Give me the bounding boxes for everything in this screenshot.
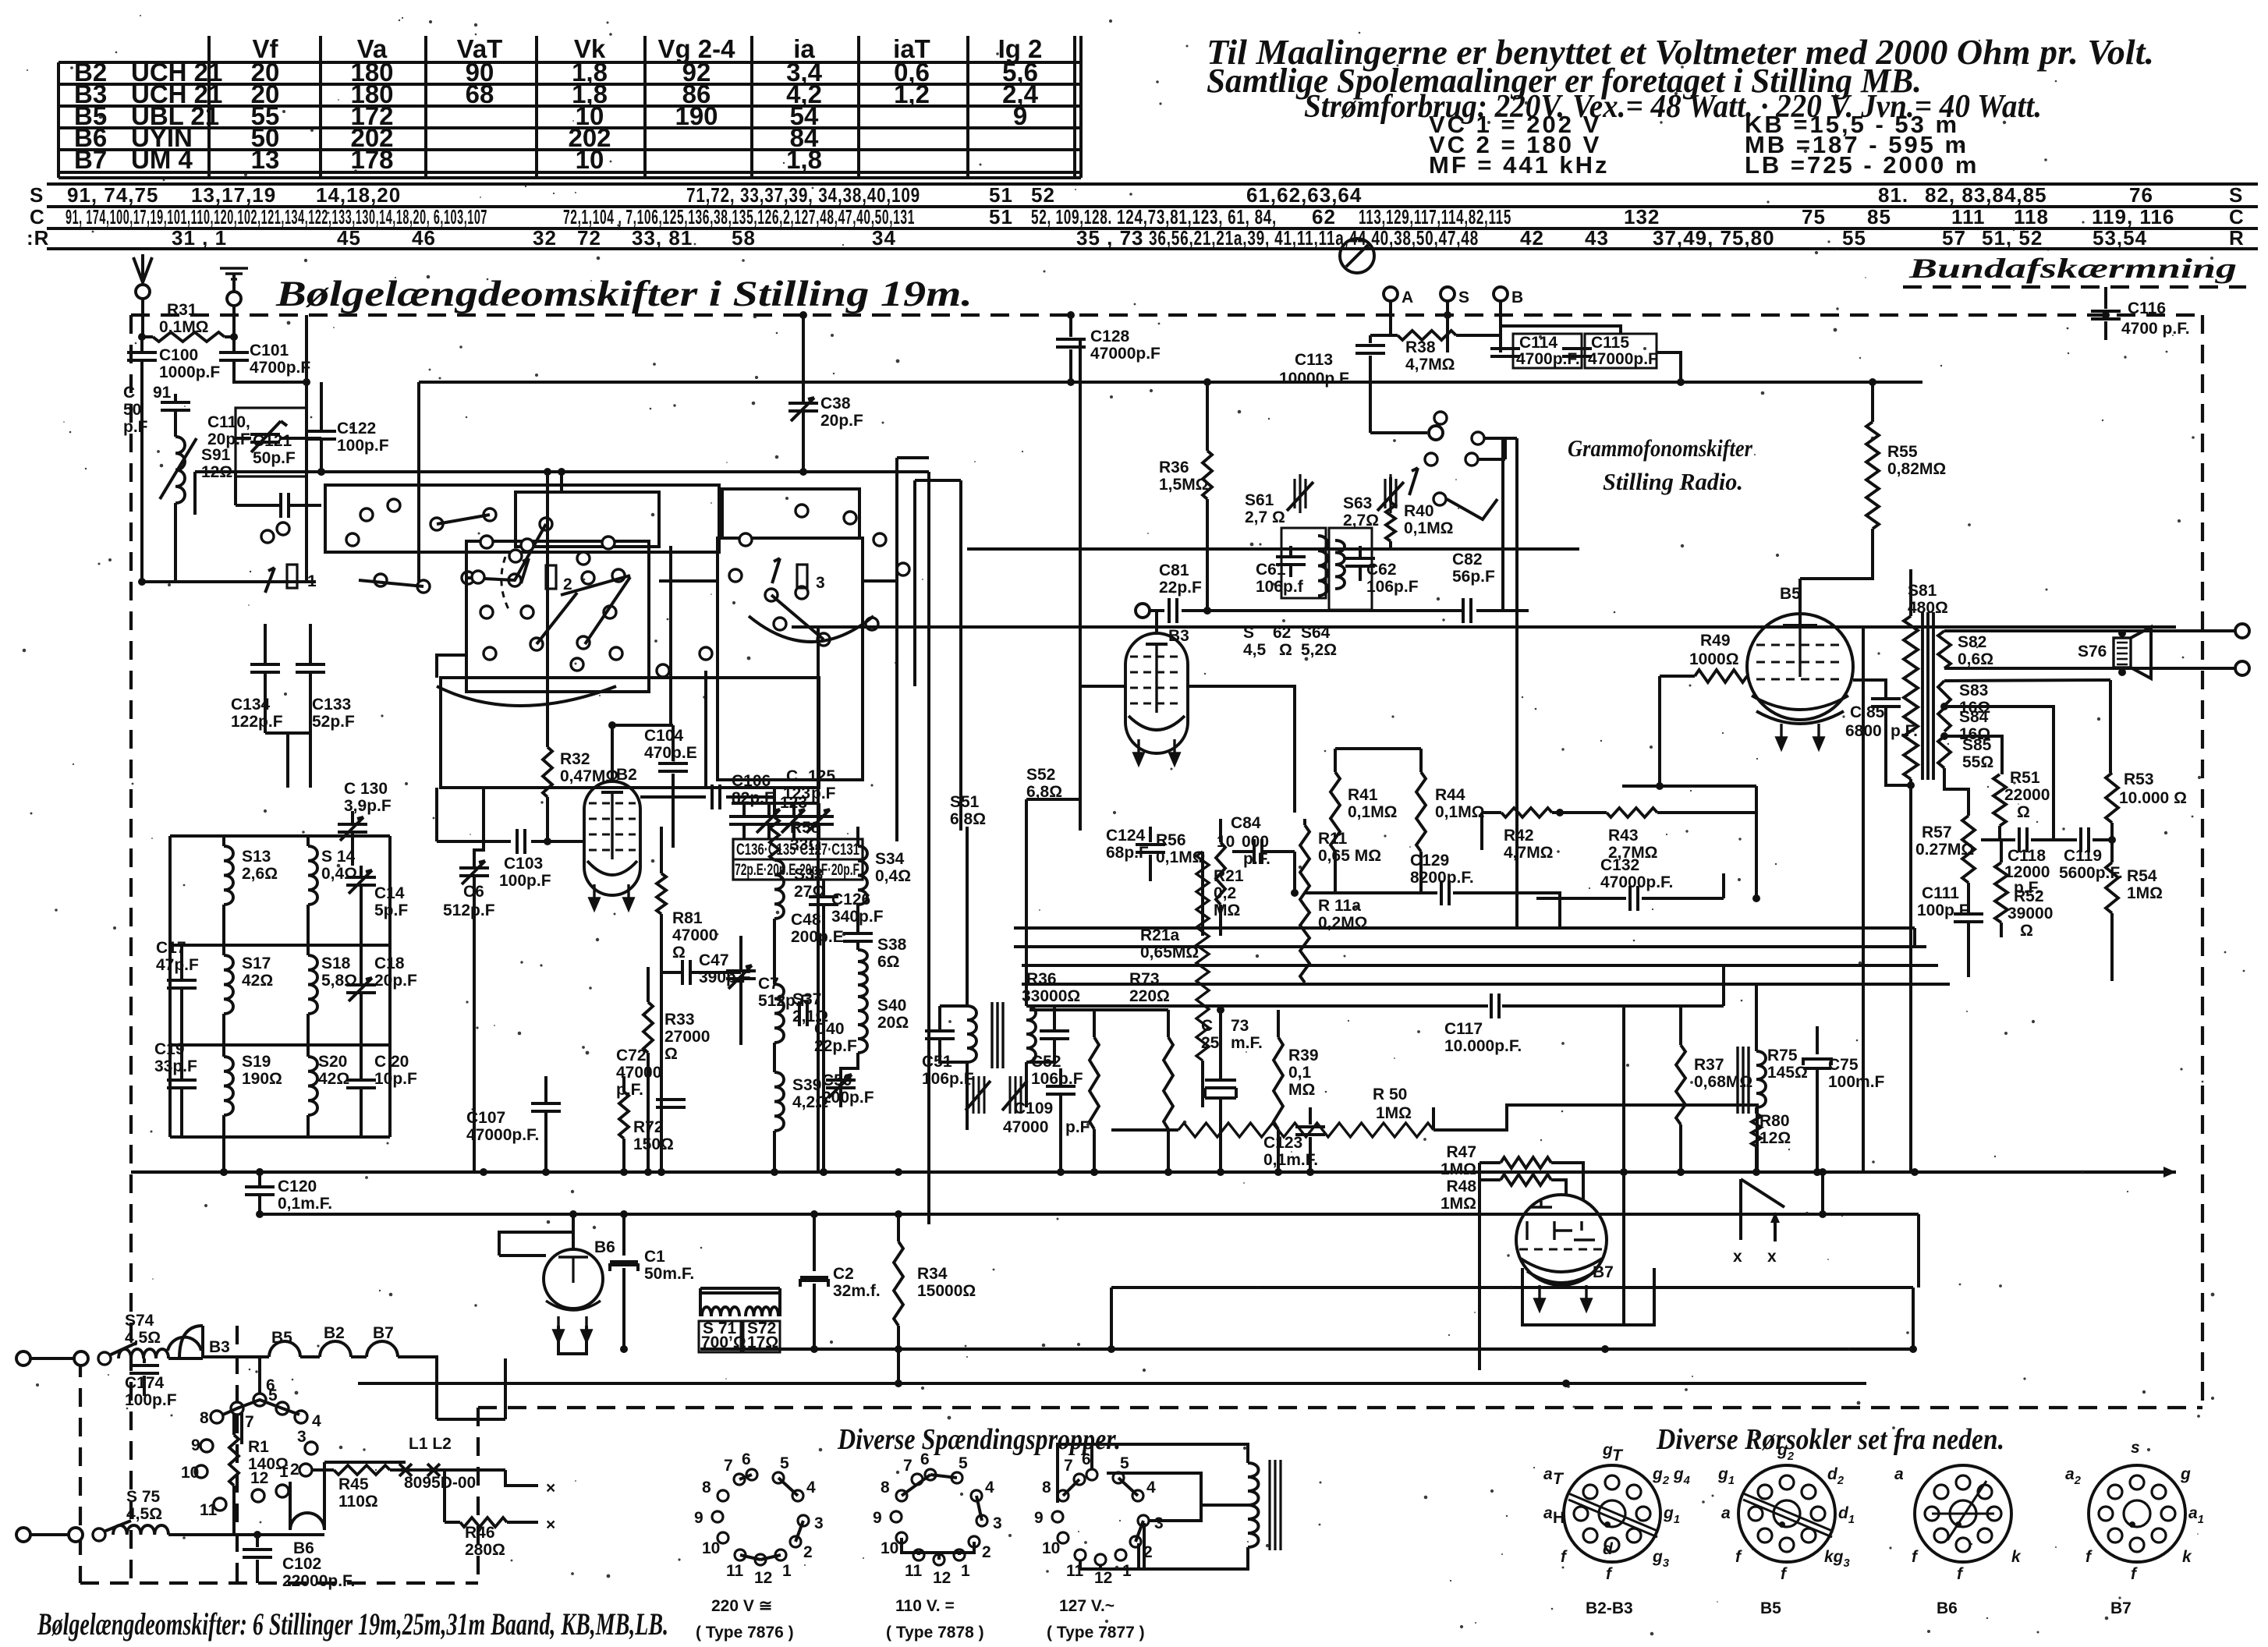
svg-text:R49: R49 <box>1700 632 1731 650</box>
svg-text:S18: S18 <box>321 955 351 972</box>
svg-text:R46: R46 <box>465 1524 495 1542</box>
svg-text:27Ω: 27Ω <box>794 883 825 901</box>
capacitor C122 <box>307 431 336 439</box>
svg-text:S74: S74 <box>125 1312 154 1330</box>
svg-text:8: 8 <box>881 1479 890 1496</box>
svg-text:190Ω: 190Ω <box>242 1070 282 1088</box>
svg-text:72,1,104 , 7,106,125,136,38,13: 72,1,104 , 7,106,125,136,38,135,126,2,12… <box>563 205 915 228</box>
IF trimmers <box>973 1076 984 1114</box>
svg-text:100m.F: 100m.F <box>1828 1073 1885 1091</box>
svg-text:200p.F: 200p.F <box>822 1089 874 1107</box>
svg-text:8: 8 <box>702 1479 711 1496</box>
capacitor C106 <box>640 795 706 799</box>
svg-text:R34: R34 <box>917 1265 948 1283</box>
capacitor C129 <box>1305 891 1437 894</box>
svg-text:R58: R58 <box>790 819 820 837</box>
svg-text:20Ω: 20Ω <box>877 1014 909 1032</box>
svg-text:1000p.F: 1000p.F <box>159 363 220 381</box>
svg-text:S38: S38 <box>877 936 907 954</box>
svg-text:91, 74,75: 91, 74,75 <box>67 183 158 207</box>
svg-text:55: 55 <box>1842 226 1866 250</box>
variable capacitor C7 <box>726 971 756 979</box>
capacitor C104 <box>612 724 673 727</box>
svg-text:0,6Ω: 0,6Ω <box>1958 650 1993 668</box>
svg-text:p.F.: p.F. <box>1243 850 1270 868</box>
wire row rails <box>170 834 390 838</box>
svg-text:S76: S76 <box>2078 643 2107 661</box>
svg-text:100p.F: 100p.F <box>125 1391 177 1409</box>
svg-text:51: 51 <box>989 183 1013 207</box>
svg-text:8: 8 <box>200 1409 209 1427</box>
voltage plug 127V <box>1086 1469 1097 1480</box>
svg-text:1MΩ: 1MΩ <box>1441 1195 1476 1213</box>
svg-text:5: 5 <box>268 1387 278 1404</box>
wire top distribution bus <box>419 381 1922 384</box>
chassis dashed border right <box>2201 315 2204 1408</box>
svg-text:100p.F: 100p.F <box>337 437 389 455</box>
wire switch2 to switch3 <box>659 579 718 583</box>
chassis dashed border left <box>129 315 133 1583</box>
tuning eye <box>1340 239 1374 273</box>
tube socket B6 <box>1915 1465 2011 1562</box>
svg-text:47000: 47000 <box>672 926 718 944</box>
svg-text:C 130: C 130 <box>344 780 388 798</box>
svg-text:C50: C50 <box>822 1071 852 1089</box>
IF core <box>992 1002 1003 1068</box>
capacitor C101 <box>232 342 236 352</box>
svg-text:C103: C103 <box>504 855 543 873</box>
svg-text:32m.f.: 32m.f. <box>833 1282 881 1300</box>
svg-text:22p.F: 22p.F <box>1159 579 1202 597</box>
svg-text:9: 9 <box>1034 1509 1044 1527</box>
trimmer S61 top <box>1295 474 1306 513</box>
svg-text:R43: R43 <box>1608 827 1639 845</box>
svg-text:Ω: Ω <box>2020 922 2033 940</box>
svg-text:35 , 73: 35 , 73 <box>1076 226 1144 250</box>
coil S14 <box>308 846 317 905</box>
svg-text:S19: S19 <box>242 1053 271 1071</box>
svg-text:S82: S82 <box>1958 633 1986 651</box>
svg-text:3: 3 <box>1154 1514 1164 1532</box>
svg-text:1: 1 <box>961 1562 970 1580</box>
coil S17 <box>224 955 233 1014</box>
capacitor C134 <box>264 624 267 664</box>
svg-text:B2: B2 <box>616 766 637 784</box>
svg-text:4: 4 <box>806 1479 816 1496</box>
svg-text:15000Ω: 15000Ω <box>917 1282 976 1300</box>
svg-text:C51: C51 <box>922 1053 952 1071</box>
svg-text:R 11a: R 11a <box>1318 897 1361 915</box>
svg-text:C122: C122 <box>337 420 376 437</box>
capacitor C107 <box>531 1103 561 1111</box>
capacitor C100 <box>140 337 144 352</box>
tube B6 <box>544 1249 603 1309</box>
svg-text:51: 51 <box>989 205 1013 228</box>
svg-text:C132: C132 <box>1600 856 1639 874</box>
svg-text:S34: S34 <box>875 850 905 868</box>
capacitor C116 <box>2104 287 2107 309</box>
svg-text:2: 2 <box>982 1543 991 1561</box>
svg-text:10: 10 <box>1217 833 1235 851</box>
svg-text:13: 13 <box>251 145 280 174</box>
svg-text:85: 85 <box>1867 205 1891 228</box>
svg-text:×: × <box>546 1479 555 1497</box>
terminal B <box>1494 287 1508 301</box>
capacitor C120 <box>258 1172 261 1185</box>
svg-text:C62: C62 <box>1366 561 1397 579</box>
trimmer C18 <box>346 985 376 993</box>
svg-text:C104: C104 <box>644 727 684 745</box>
svg-text:9: 9 <box>1013 101 1027 130</box>
svg-text:R52: R52 <box>2014 887 2044 905</box>
resistor R32 <box>546 472 549 747</box>
svg-text:C6: C6 <box>463 883 484 901</box>
svg-text:R: R <box>2229 226 2245 250</box>
svg-text:50m.F.: 50m.F. <box>644 1265 694 1283</box>
svg-text:MF = 441 kHz: MF = 441 kHz <box>1429 151 1610 179</box>
svg-text:C109: C109 <box>1014 1100 1053 1117</box>
svg-text:p.F: p.F <box>1065 1118 1090 1136</box>
svg-text:5,2Ω: 5,2Ω <box>1301 641 1337 659</box>
svg-text:C124: C124 <box>1106 827 1146 845</box>
svg-text:0,1m.F.: 0,1m.F. <box>278 1195 332 1213</box>
svg-text:Bølgelængdeomskifter: 6 Stilli: Bølgelængdeomskifter: 6 Stillinger 19m,2… <box>37 1606 668 1642</box>
resistor R73 <box>1167 1010 1170 1037</box>
svg-text:390p.F: 390p.F <box>699 969 751 986</box>
svg-text:S20: S20 <box>318 1053 347 1071</box>
coil S13 <box>224 846 233 905</box>
capacitor C115 <box>1585 334 1657 368</box>
svg-text:R32: R32 <box>560 750 590 768</box>
svg-text:47p.F: 47p.F <box>156 956 199 974</box>
svg-text:53,54: 53,54 <box>2093 226 2147 250</box>
transformer primary for 127V plug <box>1248 1463 1259 1547</box>
resistor R21 <box>1201 852 1204 936</box>
svg-text:C113: C113 <box>1295 351 1333 369</box>
svg-text:100p.F: 100p.F <box>499 872 551 890</box>
wire switch3 links <box>895 458 898 841</box>
capacitor C117 <box>1029 1004 1488 1008</box>
svg-text:42: 42 <box>1520 226 1544 250</box>
svg-text:33000Ω: 33000Ω <box>1022 987 1080 1005</box>
svg-text:R1: R1 <box>248 1438 269 1456</box>
capacitor C174 <box>143 1358 146 1363</box>
svg-text:46: 46 <box>412 226 436 250</box>
svg-text:9: 9 <box>873 1509 882 1527</box>
capacitor C128 <box>1069 315 1072 337</box>
svg-text:9: 9 <box>694 1509 703 1527</box>
svg-text:B7: B7 <box>74 145 107 174</box>
wire feedback lines <box>1014 926 1915 930</box>
svg-text:31 , 1: 31 , 1 <box>172 226 227 250</box>
wire top bus dots <box>799 311 807 319</box>
svg-text:73: 73 <box>1231 1017 1249 1035</box>
svg-text:37,49, 75,80: 37,49, 75,80 <box>1653 226 1775 250</box>
gramophone switch <box>1434 412 1447 424</box>
wire AF bus <box>792 625 2176 629</box>
svg-text:C14: C14 <box>374 884 405 902</box>
svg-text:Stilling Radio.: Stilling Radio. <box>1603 468 1743 495</box>
resistor R54 <box>2110 840 2114 862</box>
svg-text:4,7MΩ: 4,7MΩ <box>1504 844 1554 862</box>
svg-text:14,18,20: 14,18,20 <box>316 183 401 207</box>
svg-text:47000p.F.: 47000p.F. <box>466 1126 539 1144</box>
svg-text:S 14: S 14 <box>321 848 356 866</box>
svg-text:55Ω: 55Ω <box>1962 753 1993 771</box>
svg-text:100p.F.: 100p.F. <box>1917 901 1972 919</box>
svg-text:0,1MΩ: 0,1MΩ <box>1404 519 1454 537</box>
svg-text:R44: R44 <box>1435 786 1465 804</box>
coil S75 <box>113 1525 168 1535</box>
tube data table <box>58 36 1081 178</box>
svg-text:10.000p.F.: 10.000p.F. <box>1444 1037 1522 1055</box>
svg-text:S: S <box>30 183 44 207</box>
svg-text:R21: R21 <box>1214 867 1244 885</box>
capacitor C132 <box>1536 897 1626 900</box>
svg-text:C52: C52 <box>1031 1053 1061 1071</box>
svg-text:Ω: Ω <box>672 944 686 962</box>
svg-text:B6: B6 <box>594 1238 615 1256</box>
svg-text:R39: R39 <box>1288 1047 1319 1064</box>
svg-text:B3: B3 <box>1168 627 1189 645</box>
svg-text:C 20: C 20 <box>374 1053 409 1071</box>
svg-text:75: 75 <box>1802 205 1826 228</box>
svg-text:p.F: p.F <box>123 418 148 436</box>
svg-text:1,8: 1,8 <box>786 145 822 174</box>
svg-text:62: 62 <box>1312 205 1336 228</box>
svg-text:1: 1 <box>1122 1562 1132 1580</box>
resistor R31 <box>142 335 153 338</box>
svg-text:1MΩ: 1MΩ <box>2127 884 2163 902</box>
svg-text:4700 p.F.: 4700 p.F. <box>2121 320 2190 338</box>
trimmer C14 <box>346 877 376 885</box>
svg-text:S: S <box>1458 289 1469 306</box>
resistor R53 <box>2109 680 2112 773</box>
svg-text:C106: C106 <box>732 772 771 790</box>
trimmer C130 <box>338 824 367 832</box>
wire heater bus 1 <box>700 1348 1913 1351</box>
svg-text:33, 81: 33, 81 <box>632 226 693 250</box>
svg-text:7: 7 <box>724 1457 733 1475</box>
svg-text:68: 68 <box>466 80 494 108</box>
svg-text:50: 50 <box>123 401 141 419</box>
svg-text:C75: C75 <box>1828 1056 1859 1074</box>
capacitor C19 <box>167 1080 197 1088</box>
resistor R48 <box>1480 1178 1501 1181</box>
svg-text:71,72, 33,37,39, 34,38,40,109: 71,72, 33,37,39, 34,38,40,109 <box>686 183 920 207</box>
resistor R72 <box>619 1092 629 1139</box>
svg-text:47000p.F: 47000p.F <box>1090 345 1161 363</box>
svg-text:2: 2 <box>290 1461 299 1479</box>
svg-text:C115: C115 <box>1591 334 1629 352</box>
capacitor C81 <box>1136 604 1150 618</box>
tube socket B5 <box>1738 1465 1835 1562</box>
tube B7 <box>1516 1195 1607 1285</box>
capacitor C82 <box>1463 598 1471 623</box>
resistor R44 <box>1419 749 1423 772</box>
svg-text:Diverse Spændingspropper.: Diverse Spændingspropper. <box>837 1423 1121 1456</box>
svg-text:119, 116: 119, 116 <box>2092 205 2174 228</box>
svg-text:( Type 7878 ): ( Type 7878 ) <box>886 1624 984 1642</box>
svg-text:7: 7 <box>245 1413 254 1431</box>
svg-text:9: 9 <box>191 1436 200 1454</box>
resistor R40 <box>1389 477 1392 502</box>
svg-text:10: 10 <box>576 145 604 174</box>
svg-text:6Ω: 6Ω <box>877 953 900 971</box>
svg-text:R38: R38 <box>1405 338 1436 356</box>
svg-text:R75: R75 <box>1767 1047 1798 1064</box>
svg-text:R40: R40 <box>1404 502 1434 520</box>
svg-text:R41: R41 <box>1348 786 1378 804</box>
svg-text:Bølgelængdeomskifter i Stillin: Bølgelængdeomskifter i Stilling 19m. <box>275 274 973 314</box>
svg-text:3: 3 <box>814 1514 824 1532</box>
svg-text:B5: B5 <box>271 1329 292 1347</box>
resistor R45 <box>312 1468 334 1472</box>
svg-text:g: g <box>1602 1441 1613 1459</box>
resistor R1 <box>232 1413 236 1435</box>
svg-text:58: 58 <box>732 226 756 250</box>
svg-text:g: g <box>2180 1465 2191 1483</box>
switch lever S74 <box>98 1352 111 1365</box>
svg-text:s: s <box>2131 1439 2140 1457</box>
svg-text:C81: C81 <box>1159 561 1189 579</box>
filament humps B5 B2 B7 <box>203 1355 269 1358</box>
svg-text:R48: R48 <box>1446 1178 1476 1195</box>
svg-text:R33: R33 <box>664 1011 695 1029</box>
svg-text:UM 4: UM 4 <box>131 145 193 174</box>
svg-text:3: 3 <box>816 574 825 592</box>
svg-text:11: 11 <box>726 1562 744 1580</box>
svg-text:a: a <box>1894 1465 1904 1483</box>
svg-text:S52: S52 <box>1026 766 1055 784</box>
svg-text:S85: S85 <box>1962 736 1992 754</box>
svg-text:11: 11 <box>905 1562 923 1580</box>
svg-text:m.F.: m.F. <box>1231 1034 1263 1052</box>
wire heater bus 2 <box>358 1382 1866 1385</box>
svg-text:13,17,19: 13,17,19 <box>191 183 276 207</box>
svg-text:S40: S40 <box>877 997 906 1015</box>
svg-text:4: 4 <box>312 1412 321 1430</box>
svg-text:52, 109,128.: 52, 109,128. <box>1031 205 1112 228</box>
svg-text:42Ω: 42Ω <box>242 972 273 990</box>
svg-text:110 V. =: 110 V. = <box>895 1597 955 1615</box>
svg-text:MΩ: MΩ <box>1214 901 1240 919</box>
svg-text:C2: C2 <box>833 1265 854 1283</box>
coil S34 <box>858 846 867 905</box>
svg-text:C84: C84 <box>1231 814 1261 832</box>
resistor R39 <box>1277 1010 1280 1037</box>
capacitor C51 <box>925 1031 955 1039</box>
svg-text:3: 3 <box>993 1514 1002 1532</box>
svg-text:R11: R11 <box>1318 830 1348 848</box>
wire input to switch 1 <box>142 580 316 583</box>
phono input X X <box>1739 1179 1742 1240</box>
svg-text:20p.F: 20p.F <box>820 412 863 430</box>
chassis dashed border top <box>80 287 2246 1583</box>
svg-text:B2-B3: B2-B3 <box>1586 1599 1633 1617</box>
svg-text:0,82MΩ: 0,82MΩ <box>1887 460 1946 478</box>
svg-text:R47: R47 <box>1446 1143 1476 1161</box>
wire B3 anode link <box>1186 686 1295 813</box>
resistor R52 <box>2000 840 2003 862</box>
svg-text:7: 7 <box>1064 1457 1073 1475</box>
transformer S82 <box>1938 631 1951 668</box>
svg-text:R81: R81 <box>672 909 703 927</box>
svg-text:91, 174,100,17,19,101,110,120,: 91, 174,100,17,19,101,110,120,102,121,13… <box>66 205 487 228</box>
svg-text:512p.F: 512p.F <box>443 901 495 919</box>
voltage plug 110V <box>925 1469 936 1480</box>
capacitor C123 <box>1309 1107 1312 1125</box>
junction dots on heater buses <box>620 1345 628 1353</box>
svg-text:R53: R53 <box>2124 770 2154 788</box>
variable capacitor C6 <box>459 868 489 876</box>
svg-text:6: 6 <box>1082 1450 1091 1468</box>
capacitor C47 <box>682 960 690 985</box>
capacitor C119 <box>2081 827 2089 852</box>
resistor R33 <box>647 967 650 1002</box>
svg-text:2,6Ω: 2,6Ω <box>242 865 278 883</box>
svg-text:S 75: S 75 <box>126 1488 161 1506</box>
svg-text:106p.F: 106p.F <box>1366 578 1419 596</box>
svg-text:220 V ≅: 220 V ≅ <box>711 1597 772 1615</box>
svg-text:10.000 Ω: 10.000 Ω <box>2119 789 2187 807</box>
transformer S71 S72 <box>700 1288 780 1293</box>
coil S37 <box>774 984 784 1043</box>
svg-text:22p.F: 22p.F <box>814 1037 857 1055</box>
svg-text:1: 1 <box>307 572 317 590</box>
svg-text:C128: C128 <box>1090 328 1130 345</box>
resistor R11 <box>1303 819 1306 825</box>
svg-text:32: 32 <box>533 226 557 250</box>
svg-text:22000: 22000 <box>2004 786 2050 804</box>
capacitor C48 <box>843 933 873 941</box>
resistor R36 <box>1206 382 1209 451</box>
capacitor C40 <box>799 1001 807 1026</box>
svg-text:k: k <box>2011 1548 2022 1566</box>
tube B6 filament hump <box>290 1513 324 1530</box>
svg-text:6: 6 <box>920 1450 930 1468</box>
svg-text:B5: B5 <box>1760 1599 1781 1617</box>
svg-text:C82: C82 <box>1452 551 1483 568</box>
tube B5 <box>1747 614 1853 720</box>
svg-text:1,5MΩ: 1,5MΩ <box>1159 476 1209 494</box>
Bundafskaermning dashed underline <box>1903 285 2246 289</box>
wire gram switch to bus <box>1504 438 1507 459</box>
svg-text:S51: S51 <box>950 793 980 811</box>
svg-text:122p.F: 122p.F <box>231 713 283 731</box>
capacitor C20 <box>346 1080 376 1088</box>
svg-text:20p.F: 20p.F <box>374 972 417 990</box>
socket pins numbered <box>211 1411 223 1423</box>
svg-text:k: k <box>2182 1548 2192 1566</box>
svg-text:1,2: 1,2 <box>894 80 930 108</box>
capacitor C133 <box>309 624 312 664</box>
resistor R11a <box>1300 906 1309 983</box>
capacitor C50 <box>826 1080 856 1088</box>
svg-text:36,56,21,21a,39, 41,11,11a,44,: 36,56,21,21a,39, 41,11,11a,44,40,38,50,4… <box>1149 226 1479 250</box>
svg-text:4,7MΩ: 4,7MΩ <box>1405 356 1455 374</box>
svg-text:51, 52: 51, 52 <box>1982 226 2043 250</box>
svg-text:C: C <box>2229 205 2245 228</box>
svg-text:R54: R54 <box>2127 867 2157 885</box>
svg-text:S13: S13 <box>242 848 271 866</box>
resistor R49 <box>1660 675 1695 678</box>
svg-text:C61: C61 <box>1256 561 1286 579</box>
svg-text:B5: B5 <box>1780 585 1801 603</box>
svg-text:B7: B7 <box>2110 1599 2132 1617</box>
capacitor C61 <box>1276 557 1306 565</box>
junction dots on earth bus <box>220 1168 228 1176</box>
